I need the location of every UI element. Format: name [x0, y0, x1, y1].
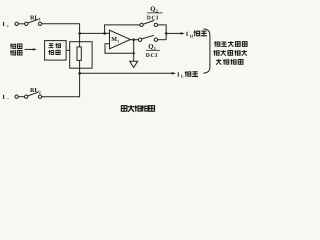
caption current converter (pseudo CJK)	[121, 106, 127, 112]
wire riser to Q2 rail	[105, 25, 140, 34]
wire from RL1 to input node	[42, 24, 80, 33]
brace to annotation	[203, 29, 210, 74]
svg-text:I: I	[186, 31, 189, 38]
svg-text:DCI: DCI	[146, 53, 158, 59]
svg-text:+: +	[7, 24, 10, 29]
svg-text:H: H	[190, 34, 194, 39]
switch Q2	[140, 23, 143, 26]
op-amp M1	[110, 30, 131, 49]
wire Q1 to output node	[158, 39, 167, 41]
node feedback tap	[132, 38, 135, 41]
node ground tap	[133, 52, 135, 54]
wire output H arrow	[166, 32, 181, 34]
wire input to op-amp	[80, 32, 110, 34]
svg-text:I: I	[177, 71, 180, 78]
annotation line 3 (pseudo CJK)	[216, 59, 222, 65]
node input junction	[78, 32, 81, 35]
label Q1 / DCI	[148, 44, 157, 51]
node bottom rail junction	[78, 72, 81, 75]
arrow analog interface to box	[25, 48, 34, 50]
svg-text:1: 1	[117, 38, 119, 43]
wire resistor to bottom rail	[79, 60, 81, 73]
label analog interface (pseudo CJK)	[10, 44, 16, 49]
ground	[133, 53, 135, 61]
resistor R (shunt)	[77, 47, 81, 61]
svg-text:−: −	[7, 96, 10, 101]
node output junction	[165, 32, 168, 35]
svg-text:Q: Q	[150, 6, 155, 13]
label Q2 / DCI	[150, 6, 159, 13]
label range control (pseudo CJK)	[49, 44, 54, 48]
wire bottom rail / output L arrow	[80, 72, 173, 74]
label RL1	[30, 14, 41, 21]
svg-text:L: L	[181, 74, 184, 79]
svg-text:DCI: DCI	[147, 16, 159, 22]
terminal I+	[2, 21, 9, 28]
svg-text:I: I	[2, 94, 5, 101]
wire op-amp output	[130, 39, 138, 41]
wire Q2 to output node	[158, 25, 167, 40]
node riser junction	[103, 32, 106, 35]
label RL2	[30, 87, 41, 94]
svg-text:2: 2	[39, 89, 41, 94]
terminal I-	[2, 94, 9, 101]
annotation line 2 (pseudo CJK)	[213, 50, 219, 55]
wire control link	[66, 49, 70, 51]
switch RL1	[15, 22, 18, 25]
label IH output	[186, 31, 194, 38]
switch Q1	[138, 38, 141, 41]
svg-text:1: 1	[39, 17, 41, 22]
annotation line 1 (pseudo CJK)	[214, 41, 220, 46]
wire RL2 to bottom rail	[42, 73, 80, 96]
wire into resistor	[79, 33, 81, 47]
label IL output	[177, 71, 184, 78]
resistor block outer box	[70, 42, 92, 68]
block range control box	[45, 41, 67, 61]
svg-text:Q: Q	[148, 44, 153, 51]
switch RL2	[15, 95, 18, 98]
wire feedback loop	[105, 40, 134, 54]
svg-text:I: I	[2, 21, 5, 28]
